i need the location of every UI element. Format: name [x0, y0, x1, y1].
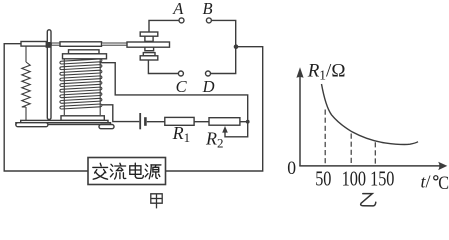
moving contact block — [145, 47, 154, 51]
svg-text:50: 50 — [315, 166, 331, 190]
wire R1 to R2 — [194, 121, 209, 123]
label 乙 (hand-drawn glyph) — [361, 194, 376, 206]
svg-text:R1: R1 — [172, 123, 191, 145]
coil bobbin sides — [64, 59, 100, 115]
text 交流电源 (hand-drawn glyphs) — [93, 163, 161, 179]
armature rod left of long bar — [51, 43, 60, 45]
rheostat R2 — [209, 118, 240, 126]
AC source box — [88, 158, 166, 185]
Y axis arrowhead — [296, 67, 303, 78]
pivot pin — [47, 30, 51, 120]
dashed guide 100 — [350, 134, 352, 166]
svg-text:R2: R2 — [205, 128, 224, 150]
node R2 junction — [246, 120, 250, 124]
label 甲 (hand-drawn glyph) — [151, 194, 162, 209]
glyph 源 — [145, 164, 161, 179]
R2 wiper arrowhead — [222, 126, 228, 133]
spring hanger — [25, 46, 27, 62]
wire battery to R1 — [147, 121, 165, 123]
graph Y axis — [299, 76, 440, 166]
svg-text:C: C — [176, 77, 188, 96]
spring lower link — [25, 107, 27, 120]
upper fixed contact block — [145, 36, 153, 41]
coil turns — [60, 59, 102, 109]
dashed guide 150 — [374, 142, 376, 166]
glyph 流 — [110, 163, 125, 179]
svg-text:0: 0 — [287, 159, 296, 179]
svg-text:t/: t/ — [421, 172, 431, 192]
R1 curve — [322, 84, 419, 145]
wire A to upper contact — [149, 20, 179, 32]
battery long plate — [139, 113, 141, 129]
terminal B — [206, 18, 211, 23]
node B/D junction — [234, 44, 239, 49]
svg-text:B: B — [202, 0, 212, 18]
base upper strip — [21, 120, 108, 122]
armature contact bar — [127, 42, 170, 47]
wire R2 to junction — [240, 121, 248, 123]
armature left bar — [21, 42, 47, 47]
lower fixed contact block — [143, 53, 155, 56]
lower fixed contact wide bar — [140, 56, 158, 60]
base right foot — [99, 125, 114, 129]
svg-text:150: 150 — [370, 166, 394, 190]
dashed guide 50 — [324, 110, 326, 166]
wire left outer loop (armature to AC source) — [4, 44, 88, 171]
resistor R1 — [165, 117, 194, 125]
base left foot — [16, 123, 48, 127]
upper fixed contact wide bar — [140, 32, 158, 36]
svg-text:D: D — [202, 77, 215, 96]
svg-text:A: A — [172, 0, 184, 18]
wire AC source right to B/D corner — [166, 47, 263, 171]
svg-text:C: C — [438, 173, 449, 194]
armature rod to contact bar — [102, 43, 128, 45]
coil top wide cap — [63, 54, 107, 59]
wire coil bottom lead to battery — [102, 105, 139, 122]
svg-text:100: 100 — [342, 166, 366, 190]
spring — [22, 62, 30, 107]
svg-text:R1/Ω: R1/Ω — [307, 61, 346, 83]
wire coil top lead to R2 junction — [99, 63, 247, 122]
pivot joint — [46, 42, 52, 48]
base lower strip — [16, 123, 111, 125]
battery short plate — [144, 117, 147, 126]
glyph 电 — [130, 163, 144, 178]
armature long bar — [60, 42, 102, 47]
terminal D — [206, 71, 211, 76]
graph X axis — [299, 165, 440, 167]
coil top narrow cap — [69, 50, 100, 54]
wire C to lower contact — [148, 60, 178, 74]
coil bottom cap — [61, 116, 104, 121]
X axis arrowhead — [438, 162, 447, 170]
R2 wiper wire — [225, 122, 248, 137]
glyph 交 — [93, 163, 108, 179]
terminal A — [179, 18, 184, 23]
wire B and D to junction — [211, 20, 236, 73]
terminal C — [178, 71, 183, 76]
